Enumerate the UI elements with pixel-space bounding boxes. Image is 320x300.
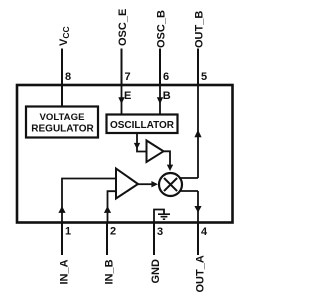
svg-text:OSCILLATOR: OSCILLATOR	[110, 120, 175, 131]
svg-text:VCC: VCC	[58, 26, 71, 46]
svg-text:GND: GND	[150, 259, 162, 284]
svg-text:6: 6	[163, 71, 169, 83]
svg-text:8: 8	[65, 71, 71, 83]
svg-text:OSC_B: OSC_B	[156, 10, 168, 48]
svg-text:7: 7	[125, 71, 131, 83]
svg-text:OSC_E: OSC_E	[117, 9, 129, 46]
svg-text:2: 2	[110, 226, 116, 238]
svg-text:REGULATOR: REGULATOR	[31, 124, 94, 135]
svg-text:E: E	[124, 90, 131, 102]
svg-text:IN_A: IN_A	[59, 259, 71, 284]
svg-text:OUT_A: OUT_A	[195, 255, 207, 292]
svg-text:IN_B: IN_B	[104, 259, 116, 284]
svg-text:5: 5	[201, 71, 207, 83]
svg-text:B: B	[163, 90, 171, 102]
svg-text:1: 1	[65, 226, 71, 238]
svg-text:OUT_B: OUT_B	[194, 11, 206, 48]
svg-text:3: 3	[157, 226, 163, 238]
svg-text:4: 4	[201, 226, 208, 238]
svg-text:VOLTAGE: VOLTAGE	[40, 112, 86, 123]
